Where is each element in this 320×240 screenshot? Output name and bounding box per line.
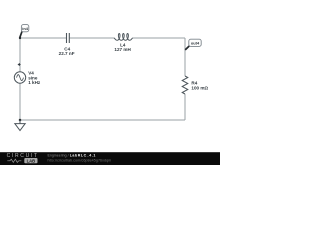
svg-text:Engineering / LabRLC_4.1: Engineering / LabRLC_4.1 [48,154,96,158]
wire: top horizontal right of inductor [133,37,185,39]
inductor L4 [114,34,133,41]
inductor L4 labels [114,43,131,53]
voltage source V4 labels [28,71,41,86]
svg-text:htto://circuitlab.com/c6p8e45g: htto://circuitlab.com/c6p8e45g76xdqm [48,159,112,163]
svg-text:22.7 nF: 22.7 nF [59,51,75,56]
svg-text:LAB: LAB [27,158,36,163]
wire: left lower vertical segment [19,83,21,120]
capacitor C4 [67,33,70,43]
capacitor C4 labels [59,46,75,56]
ground [15,120,25,131]
node flag out4 [185,39,201,50]
svg-text:100 mΩ: 100 mΩ [191,85,208,90]
svg-text:127 mH: 127 mH [114,47,131,52]
wire: top horizontal between capacitor and inductor [70,37,114,39]
footer logo LAB chip [24,158,37,163]
junction dot at ground node [19,119,22,122]
resistor R4 [182,76,188,94]
svg-text:in4: in4 [22,26,28,31]
node flag in4 [19,25,29,40]
voltage source plus mark [18,63,21,66]
wire: bottom horizontal [20,119,185,121]
wire: top horizontal left of capacitor [20,37,66,39]
resistor R4 labels [191,80,208,90]
footer bar [0,152,220,165]
wire: right vertical above resistor [184,38,186,76]
svg-text:out4: out4 [191,40,200,45]
svg-text:1 kHz: 1 kHz [28,80,41,85]
wire: top-left vertical segment [19,38,21,72]
voltage source sine squiggle [17,75,24,81]
wire: right vertical below resistor [184,94,186,120]
voltage source V4 [14,72,25,83]
footer logo waveform [7,159,21,162]
